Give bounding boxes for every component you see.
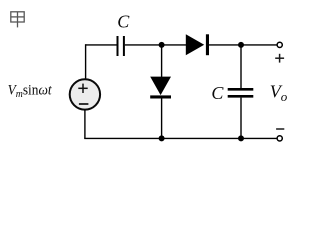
wire left vertical bottom (source to bottom rail) (84, 110, 86, 139)
node junction at D1 bottom (159, 135, 165, 141)
source V1 (AC, Vm sin wt) (70, 79, 100, 109)
wire top-right (D2 to + terminal) (209, 44, 277, 46)
svg-text:Vmsinωt: Vmsinωt (8, 82, 53, 100)
node junction at D1 top (159, 42, 165, 48)
terminal - (open circle, bottom right) (277, 136, 282, 141)
wire D1 branch bottom (161, 99, 163, 139)
plus sign at output (275, 54, 284, 63)
terminal + (open circle, top right) (277, 42, 282, 47)
node junction at C2 top (238, 42, 244, 48)
capacitor C2 (shunt, right) (228, 89, 254, 96)
diode D2 (horizontal, pointing right) (186, 34, 209, 55)
wire top-middle (C1 to D2) (125, 44, 186, 46)
svg-text:Vo: Vo (270, 82, 288, 104)
capacitor C1 (series, top) (118, 36, 124, 56)
label 甲 (figure marker, drawn strokes) (11, 12, 24, 28)
svg-text:C: C (211, 83, 224, 103)
minus sign at output (276, 128, 284, 130)
wire C2 branch top (240, 45, 242, 88)
wire D1 branch top (161, 45, 163, 77)
node junction at C2 bottom (238, 135, 244, 141)
wire bottom rail (84, 137, 277, 139)
svg-text:C: C (117, 11, 130, 31)
wire C2 branch bottom (240, 98, 242, 139)
plus sign inside source (78, 84, 87, 93)
wire top-left horizontal (source top to C1) (86, 44, 117, 46)
wire left vertical top (corner to source) (85, 44, 87, 79)
minus sign inside source (79, 103, 89, 105)
diode D1 (vertical, pointing down) (150, 77, 171, 99)
